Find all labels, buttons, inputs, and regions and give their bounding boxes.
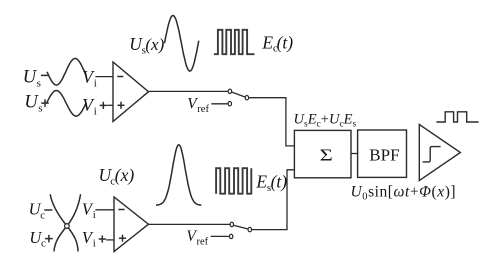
svg-text:i: i	[93, 238, 96, 250]
svg-text:Σ: Σ	[320, 146, 333, 165]
svg-text:U: U	[23, 68, 38, 88]
svg-text:(t): (t)	[271, 172, 288, 192]
svg-text:ref: ref	[197, 104, 209, 115]
svg-text:s: s	[37, 78, 41, 90]
svg-text:U: U	[24, 92, 39, 112]
svg-text:BPF: BPF	[369, 145, 399, 164]
svg-text:(t): (t)	[277, 32, 294, 52]
svg-text:(x): (x)	[145, 35, 164, 54]
svg-text:s: s	[38, 102, 42, 114]
svg-text:c: c	[40, 209, 45, 221]
svg-text:UsEc+UcEs: UsEc+UcEs	[294, 111, 357, 129]
svg-text:E: E	[261, 32, 273, 52]
svg-text:(x): (x)	[115, 165, 135, 185]
svg-text:i: i	[94, 105, 97, 117]
svg-text:c: c	[41, 238, 46, 250]
svg-text:E: E	[255, 172, 267, 192]
svg-text:ref: ref	[197, 236, 209, 247]
svg-text:i: i	[93, 209, 96, 221]
svg-text:i: i	[94, 77, 97, 89]
